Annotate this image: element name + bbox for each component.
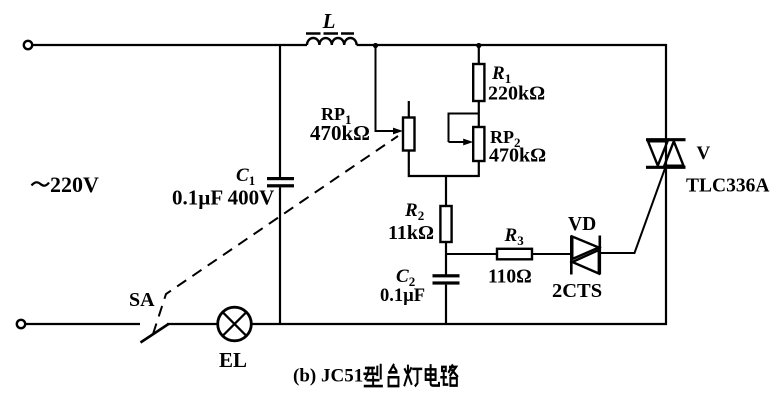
junction dot: top rail / R1 <box>476 43 481 48</box>
svg-text:470kΩ: 470kΩ <box>489 145 546 167</box>
label SA <box>129 289 155 311</box>
wire: R2 to C2/R3 node <box>445 242 447 275</box>
svg-text:470kΩ: 470kΩ <box>310 121 370 145</box>
switch SA blade <box>141 324 169 343</box>
svg-text:0.1µF: 0.1µF <box>380 286 425 306</box>
wire: RP2 bottom lead <box>478 161 480 177</box>
resistor R3 <box>497 249 532 259</box>
label R2 value <box>388 222 434 244</box>
inductor L <box>306 34 357 46</box>
caption hanzi 台 <box>389 365 399 386</box>
label VD type 2CTS <box>552 280 602 302</box>
wire: switch to lamp <box>167 323 218 325</box>
wire: node to R3 <box>446 253 497 255</box>
label EL <box>219 348 247 372</box>
resistor R2 <box>440 206 451 242</box>
wire: R3 to diac <box>532 253 571 255</box>
resistor R1 <box>473 45 484 101</box>
wire: C2 to bottom rail <box>445 285 447 325</box>
wire: R1 to RP2 <box>478 101 480 127</box>
terminal: AC input top-left <box>24 41 32 49</box>
capacitor C2 <box>433 274 460 284</box>
svg-text:110Ω: 110Ω <box>488 267 532 288</box>
wire: RP1 wiper feed <box>376 45 404 134</box>
svg-text:TLC336A: TLC336A <box>686 176 769 197</box>
svg-text:(b) JC51: (b) JC51 <box>293 366 363 387</box>
wire: RP1 bottom lead to node row <box>409 151 479 177</box>
label R1 <box>491 63 511 86</box>
label C1 value <box>172 186 274 210</box>
label V type TLC336A <box>686 176 769 197</box>
label R2 <box>404 200 424 223</box>
label VD <box>568 214 596 235</box>
svg-text:2CTS: 2CTS <box>552 280 602 302</box>
wire: C1 lower lead <box>279 187 281 325</box>
junction dot: top rail / RP1 feed <box>373 43 378 48</box>
svg-text:L: L <box>322 9 336 33</box>
wire: bottom rail, lamp to bottom-right corner <box>252 323 668 325</box>
triac V <box>646 140 686 168</box>
svg-text:220V: 220V <box>50 172 99 197</box>
caption hanzi 电 <box>426 365 439 385</box>
svg-text:VD: VD <box>568 214 596 235</box>
label L <box>322 9 336 33</box>
label C2 value <box>380 286 425 306</box>
caption hanzi 路 <box>441 365 457 385</box>
wire: right rail <box>665 44 667 325</box>
diac VD <box>571 236 600 275</box>
label RP1 value <box>310 121 370 145</box>
label RP2 <box>490 127 521 150</box>
wire: top rail, input terminal to inductor <box>33 44 308 46</box>
wire: node to R2 <box>445 176 447 206</box>
label R3 <box>504 225 525 248</box>
dashed mechanical link SA to RP1 <box>153 136 398 334</box>
label RP2 value <box>489 145 546 167</box>
label R1 value <box>488 83 545 105</box>
label R3 value <box>488 267 532 288</box>
svg-text:SA: SA <box>129 289 155 311</box>
capacitor C1 <box>267 177 294 187</box>
wire: bottom rail, input terminal to switch <box>26 323 141 325</box>
potentiometer RP2 <box>449 114 485 162</box>
wire: C1 upper lead <box>279 44 281 178</box>
caption hanzi 型 <box>364 365 381 386</box>
label C2 <box>396 266 415 289</box>
label V <box>697 143 711 164</box>
terminal: AC input bottom-left <box>17 320 25 328</box>
svg-text:EL: EL <box>219 348 247 372</box>
caption latin part (b) JC51 <box>293 366 363 387</box>
potentiometer RP1 <box>403 101 415 151</box>
caption hanzi 灯 <box>405 366 422 386</box>
wire: top rail, inductor to top-right corner <box>357 44 667 46</box>
svg-text:220kΩ: 220kΩ <box>488 83 545 105</box>
label RP1 <box>321 104 352 127</box>
wire: diac to triac gate <box>601 167 666 253</box>
label C1 <box>236 165 255 188</box>
svg-text:0.1µF 400V: 0.1µF 400V <box>172 186 274 210</box>
svg-text:V: V <box>697 143 711 164</box>
lamp EL <box>218 307 252 341</box>
svg-text:11kΩ: 11kΩ <box>388 222 434 244</box>
label AC supply ~220V <box>32 172 100 197</box>
